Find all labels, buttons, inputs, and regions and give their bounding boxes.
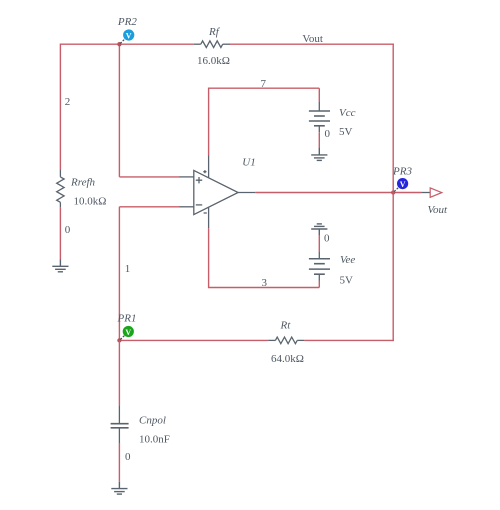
- svg-text:0: 0: [325, 128, 331, 140]
- svg-text:10.0kΩ: 10.0kΩ: [74, 196, 107, 208]
- svg-text:0: 0: [324, 233, 330, 245]
- svg-text:Vout: Vout: [428, 204, 449, 216]
- svg-text:Cnpol: Cnpol: [139, 415, 166, 427]
- svg-text:0: 0: [125, 451, 131, 463]
- junction node output: [391, 190, 395, 194]
- svg-text:U1: U1: [242, 156, 255, 168]
- wire output connector stub: [421, 192, 430, 194]
- wire Vee to inverted ground: [318, 235, 320, 251]
- wire op-amp output: [255, 192, 421, 194]
- svg-text:V: V: [126, 31, 132, 40]
- wire bottom-right horizontal: [304, 339, 394, 341]
- wire left vertical upper (net 2): [59, 44, 61, 170]
- svg-text:16.0kΩ: 16.0kΩ: [197, 55, 230, 67]
- battery Vcc: [309, 101, 330, 132]
- svg-text:10.0nF: 10.0nF: [139, 433, 170, 445]
- wire top-right Vout horizontal: [230, 43, 394, 45]
- svg-text:Rf: Rf: [208, 26, 221, 38]
- wire mid vertical upper (net 2 to +input): [119, 44, 179, 177]
- ground GND Vcc: [311, 147, 327, 160]
- probe PR3: [394, 178, 408, 192]
- junction node net2 top: [117, 42, 121, 46]
- svg-text:PR2: PR2: [117, 16, 137, 28]
- svg-text:2: 2: [65, 96, 71, 108]
- svg-text:64.0kΩ: 64.0kΩ: [271, 353, 304, 365]
- svg-text:PR3: PR3: [392, 165, 412, 177]
- wire capacitor branch upper: [118, 340, 120, 405]
- ground GND left: [52, 260, 68, 272]
- wire right vertical (Vout net): [392, 44, 394, 342]
- svg-text:0: 0: [65, 224, 71, 236]
- svg-text:5V: 5V: [340, 274, 354, 286]
- wire op-amp pin7 to Vcc: [208, 88, 319, 155]
- op-amp U1: [179, 156, 255, 229]
- probe PR2: [120, 29, 134, 43]
- svg-text:1: 1: [125, 263, 131, 275]
- ground GND capacitor: [111, 482, 127, 494]
- resistor Rf: [194, 41, 230, 48]
- ground GND Vee inverted: [311, 224, 327, 236]
- svg-text:7: 7: [261, 78, 267, 90]
- svg-text:Vee: Vee: [340, 254, 355, 266]
- wire left vertical lower (net 0): [59, 207, 61, 259]
- battery Vee: [309, 251, 330, 281]
- svg-text:V: V: [125, 328, 131, 337]
- svg-text:PR1: PR1: [117, 313, 137, 325]
- wire mid vertical lower (net 1 from -input): [119, 207, 179, 341]
- probe PR1: [120, 326, 134, 340]
- svg-text:3: 3: [262, 277, 268, 289]
- svg-text:Vout: Vout: [302, 33, 323, 45]
- wire capacitor branch lower: [118, 443, 120, 482]
- capacitor Cnpol: [111, 405, 129, 443]
- wire top-left net2 horizontal: [60, 43, 193, 45]
- svg-text:V: V: [400, 180, 406, 189]
- junction node net1 bottom: [117, 338, 121, 342]
- resistor Rrefh: [57, 169, 64, 207]
- svg-text:5V: 5V: [339, 126, 353, 138]
- svg-text:Rt: Rt: [280, 320, 292, 332]
- svg-text:Rrefh: Rrefh: [70, 177, 96, 189]
- wire op-amp pin3 to Vee: [209, 228, 320, 288]
- resistor Rt: [268, 337, 304, 344]
- wire Vcc to ground: [318, 132, 320, 147]
- wire bottom-left net1 horizontal: [119, 339, 269, 341]
- connector arrow Vout: [430, 188, 442, 197]
- svg-text:Vcc: Vcc: [339, 107, 356, 119]
